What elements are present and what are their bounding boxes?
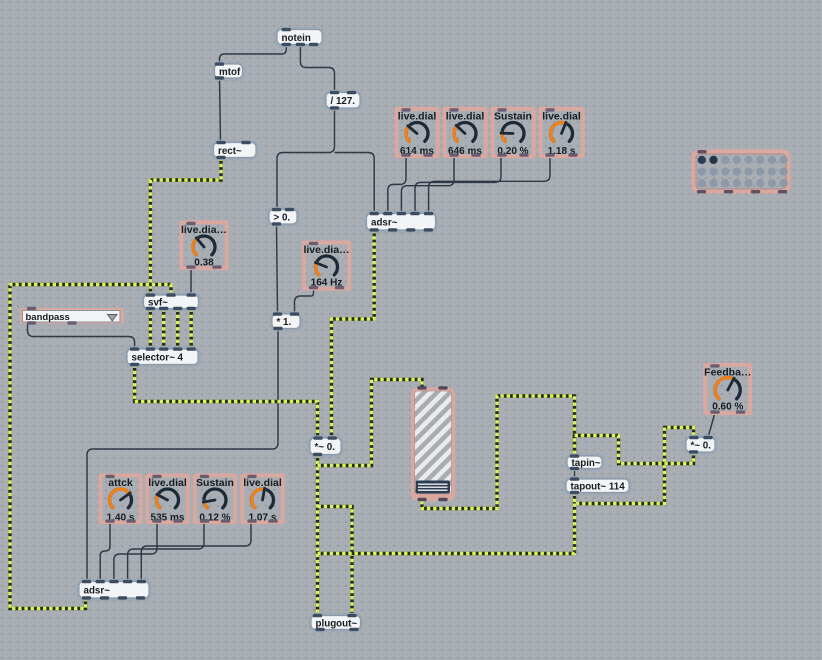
wire *~0 right out to tapin~ in0 (feedback) <box>575 436 694 464</box>
wire adsr~(1) out to *~0 left in1 <box>332 230 375 438</box>
live.dial D6 164Hz <box>302 241 351 291</box>
wire selector~ out to *~0 left in0 <box>135 365 318 439</box>
svg-text:*~ 0.: *~ 0. <box>691 441 712 452</box>
op-box adsr~ U14 (filter env) <box>78 580 150 600</box>
wire *1. out to adsr~(2) in0 <box>87 329 278 582</box>
svg-text:live.dia…: live.dia… <box>181 224 227 236</box>
wire dial 164Hz out to *1. in1 <box>295 291 314 315</box>
wire dial sustain out to adsr~(1) in3 <box>415 158 501 214</box>
wire notein out0 to mtof in0 <box>220 45 287 65</box>
wire *~0 left out to plugout~ in1 <box>318 507 353 616</box>
svg-text:live.dia…: live.dia… <box>303 244 349 256</box>
wire mtof out to rect~ in0 <box>220 78 221 143</box>
svg-text:adsr~: adsr~ <box>371 218 398 229</box>
op-box mtof U2 <box>214 62 244 79</box>
op-box plugout~ U15 <box>310 614 362 631</box>
live.dial D11 1.07s <box>241 474 285 525</box>
svg-text:*~ 0.: *~ 0. <box>315 442 336 453</box>
live.dial D1 614ms <box>395 107 440 158</box>
svg-text:rect~: rect~ <box>218 146 242 157</box>
wire dial feedback out to *~0 right in1 <box>708 413 715 438</box>
wire dial 614ms out to adsr~(1) in1 <box>388 158 406 214</box>
wire /127 out to >0. in0 <box>277 108 335 210</box>
op-box rect~ U4 <box>213 141 258 159</box>
wire rect~ out to svf~ in0 <box>150 158 221 296</box>
svg-text:live.dial: live.dial <box>398 111 437 123</box>
svg-text:Sustain: Sustain <box>494 111 532 123</box>
wire tapout~ out to *~0 right in0 <box>575 428 694 504</box>
op-box * 1. U7 <box>271 312 301 330</box>
wire gain~ out to tapin~ in0 <box>422 396 575 509</box>
wire svf~ out0 to selector~ in1 <box>149 309 152 350</box>
op-box *~ 0. U13 (right) <box>685 436 716 454</box>
live.dial D10 sustain2 <box>193 474 237 525</box>
svg-text:live.dial: live.dial <box>148 477 187 489</box>
wire tapin~ out to tapout~ in0 <box>574 469 576 480</box>
svg-text:> 0.: > 0. <box>274 213 291 224</box>
wire svf~ out2 to selector~ in3 <box>176 309 179 350</box>
wire dial 1.18s out to adsr~(1) in4 <box>429 158 550 214</box>
wire bandpass out to selector~ in0 <box>28 325 135 350</box>
live.grid G1 <box>692 150 791 194</box>
wire >0. out to *1. in0 <box>277 224 278 314</box>
op-box tapout~ 114 U12 <box>565 477 630 494</box>
wire dial sustain2 out to adsr~(2) in3 <box>128 524 204 582</box>
wire dial 1.07s out to adsr~(2) in4 <box>141 524 251 582</box>
live.dial D7 feedback <box>704 363 753 415</box>
live.dial D8 attck <box>99 474 143 525</box>
svg-text:0.38: 0.38 <box>194 257 214 268</box>
umenu bandpass <box>20 307 124 325</box>
wire svf~ out1 to selector~ in2 <box>162 309 165 350</box>
op-box selector~ 4 U9 <box>126 347 199 366</box>
wire adsr~(2) out to svf~ in1 via left edge <box>10 285 171 609</box>
live.dial D2 646ms <box>443 107 488 158</box>
svg-text:/ 127.: / 127. <box>331 96 356 107</box>
wire tapout~ out to plugout~ in0 (wet mix) <box>318 504 575 554</box>
live.dial D3 sustain <box>491 107 536 158</box>
wire dial 535ms out to adsr~(2) in2 <box>114 524 157 582</box>
svg-text:live.dial: live.dial <box>542 111 581 123</box>
svg-text:adsr~: adsr~ <box>84 586 111 597</box>
svg-text:tapout~ 114: tapout~ 114 <box>571 482 626 493</box>
op-box > 0. U5 <box>268 208 298 226</box>
live.dial D9 535ms <box>146 474 190 525</box>
wire dial 646ms out to adsr~(1) in2 <box>401 158 454 214</box>
wire *~0 left out to plugout~ in0 <box>316 455 319 616</box>
live.dial D5 Q 0.38 <box>180 221 229 271</box>
live.dial D4 1.18s <box>539 107 585 158</box>
wire svf~ out3 to selector~ in4 <box>189 309 192 350</box>
wire *~0 left out to gain~ in0 <box>318 380 423 466</box>
gain~ slider G2 <box>411 386 455 501</box>
wire notein out1 to /127 in0 <box>300 45 334 93</box>
svg-text:selector~ 4: selector~ 4 <box>132 353 184 364</box>
svg-text:live.dial: live.dial <box>446 111 485 123</box>
svg-text:live.dial: live.dial <box>243 477 282 489</box>
wire /127 out to adsr~(1) in0 <box>335 153 375 214</box>
op-box *~ 0. U10 (left) <box>309 436 342 456</box>
op-box tapin~ U11 <box>566 454 603 470</box>
op-box adsr~ U6 (amp env) <box>366 212 437 232</box>
svg-text:notein: notein <box>282 33 311 44</box>
wire dial attck out to adsr~(2) in1 <box>100 524 110 582</box>
svg-text:attck: attck <box>108 477 133 489</box>
wire dial 0.38 out to svf~ in2 <box>190 269 192 296</box>
svg-text:* 1.: * 1. <box>277 317 292 328</box>
op-box / 127. U3 <box>325 91 361 110</box>
svg-text:Sustain: Sustain <box>196 477 234 489</box>
op-box notein U1 <box>276 28 323 46</box>
op-box svf~ U8 <box>143 293 200 310</box>
